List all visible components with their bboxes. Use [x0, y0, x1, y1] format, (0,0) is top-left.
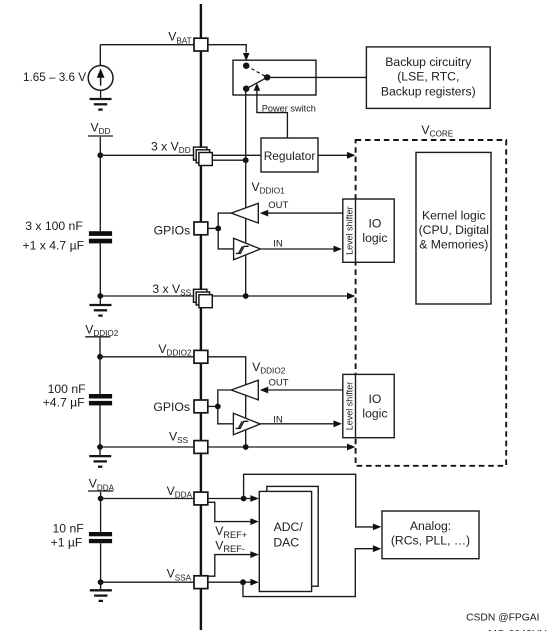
- wire GPIO1 pin to node: [208, 227, 218, 229]
- pin VSSA: [194, 576, 208, 589]
- svg-text:CSDN @FPGAI: CSDN @FPGAI: [466, 613, 539, 624]
- wire VSS line to VCORE: [210, 295, 347, 297]
- arrow VREF- into ADC: [250, 551, 258, 558]
- pin VBAT: [194, 38, 208, 51]
- arrow into switch top contact: [243, 53, 250, 61]
- wire VDD rail down to capacitor: [99, 155, 101, 231]
- wire node up to driver2: [218, 390, 231, 406]
- output driver2 triangle: [231, 380, 258, 400]
- svg-text:GPIOs: GPIOs: [154, 224, 191, 238]
- junction VDDIO2 rail: [97, 354, 103, 360]
- wire regulator output to VCORE: [318, 154, 347, 156]
- pin GPIO2: [194, 400, 208, 413]
- wire VBAT pin to switch: [208, 45, 246, 53]
- arrow VSS2 into VCORE: [347, 444, 355, 451]
- junction GPIO1 node: [215, 226, 221, 232]
- junction VDDA node: [241, 496, 247, 502]
- schmitt trigger2 hysteresis glyph: [236, 421, 249, 428]
- pin 3xVDD stacked: [194, 147, 207, 160]
- wire VDDIO2 to pin: [100, 356, 199, 358]
- wire VDD rail to 3xVDD pin: [100, 154, 199, 156]
- wire VSS2 stub to ground: [99, 447, 101, 455]
- ground source: [90, 99, 112, 110]
- wire node down to schmitt1: [218, 228, 233, 249]
- ground VSSA: [90, 590, 112, 601]
- wire IN1 to level shifter: [260, 248, 333, 250]
- svg-text:OUT: OUT: [268, 200, 288, 211]
- svg-text:OUT: OUT: [269, 377, 289, 388]
- ADC/DAC stacked box back: [267, 486, 318, 586]
- svg-text:logic: logic: [362, 231, 387, 245]
- svg-text:(LSE, RTC,: (LSE, RTC,: [397, 70, 459, 84]
- analog block box: [382, 511, 479, 559]
- ADC/DAC box front: [259, 491, 311, 591]
- junction VDD rail: [97, 152, 103, 158]
- arrow VDDA into ADC: [250, 495, 258, 502]
- arrow OUT2 into driver: [260, 387, 268, 394]
- svg-text:IO: IO: [368, 217, 381, 231]
- junction VSS2 rail left: [97, 444, 103, 450]
- arrow switch control: [254, 83, 261, 91]
- kernel logic box: [416, 152, 491, 304]
- wire VDD stub: [99, 137, 101, 155]
- svg-text:Analog:: Analog:: [410, 519, 451, 533]
- switch lever: [246, 77, 267, 88]
- arrow analog top input: [373, 524, 381, 531]
- wire GPIO2 pin to node: [208, 405, 218, 407]
- svg-text:IN: IN: [273, 238, 283, 249]
- wire VSSA to pin: [101, 581, 199, 583]
- svg-text:(CPU, Digital: (CPU, Digital: [419, 223, 489, 237]
- pin 3xVSS stacked: [194, 289, 207, 302]
- capacitor C2 100nF+4.7uF plates: [89, 394, 112, 399]
- VCORE domain dashed box: [356, 140, 507, 466]
- wire VDDA to analog block: [244, 474, 374, 527]
- svg-text:Backup circuitry: Backup circuitry: [385, 55, 472, 69]
- output driver1 triangle: [231, 203, 258, 223]
- arrow IN2: [334, 420, 342, 427]
- switch dashed throw: [246, 66, 267, 78]
- svg-text:3 x 100 nF: 3 x 100 nF: [25, 219, 83, 233]
- wire VREF- tap: [208, 555, 251, 577]
- wire VSSA to analog block: [243, 549, 374, 597]
- svg-text:Kernel logic: Kernel logic: [422, 208, 486, 222]
- wire C1 to VSS line: [99, 243, 101, 296]
- voltage source 1.65-3.6 V: [88, 66, 113, 91]
- wire source top drop: [99, 45, 101, 66]
- arrow OUT1 into driver: [260, 210, 268, 217]
- schmitt trigger1 hysteresis glyph: [236, 246, 249, 253]
- wire VBAT from source to pin: [100, 44, 195, 46]
- wire VSS stub to ground: [99, 296, 101, 304]
- node VDDA underline: [88, 490, 113, 492]
- arrow VREF+ into ADC: [250, 518, 258, 525]
- node VDD underline: [88, 135, 113, 137]
- wire IN2 to level shifter: [260, 423, 333, 425]
- arrow VSS into VCORE: [347, 293, 355, 300]
- pin GPIO1: [194, 222, 208, 235]
- switch contact VBAT: [243, 62, 249, 68]
- svg-text:ADC/: ADC/: [274, 520, 304, 534]
- wire VDDA stub: [100, 492, 102, 499]
- IO logic box2 with level shifter: [343, 374, 394, 437]
- svg-text:+4.7 µF: +4.7 µF: [43, 396, 85, 410]
- junction VDDA rail: [98, 496, 104, 502]
- wire C3 to VSSA line: [100, 543, 102, 582]
- junction VSS rail left: [97, 293, 103, 299]
- capacitor C3 10nF+1uF plates: [89, 532, 112, 536]
- wire switch output to backup circuitry: [267, 76, 366, 78]
- IO logic box1 with level shifter: [343, 199, 394, 262]
- node VDDIO2 underline: [85, 336, 110, 338]
- svg-text:GPIOs: GPIOs: [153, 400, 190, 414]
- svg-text:Regulator: Regulator: [264, 149, 316, 163]
- svg-text:10 nF: 10 nF: [53, 522, 84, 536]
- junction VSSA node: [240, 579, 246, 585]
- wire switch control from regulator: [257, 90, 288, 138]
- wire VDDA rail to capacitor: [100, 499, 102, 533]
- switch contact VDD: [243, 86, 249, 92]
- wire 3xVDD pin to regulator: [210, 154, 261, 156]
- svg-text:Level shifter: Level shifter: [344, 206, 354, 255]
- wire 3xVDD pin to switch rail: [210, 159, 246, 161]
- junction VSS rail and VDDIO1 rail: [243, 293, 249, 299]
- ground VSS2: [89, 456, 111, 467]
- svg-text:IO: IO: [368, 392, 381, 406]
- schmitt trigger1 triangle: [234, 238, 261, 259]
- junction VDD to switch rail: [243, 157, 249, 163]
- svg-text:Backup registers): Backup registers): [381, 84, 476, 98]
- svg-text:Power switch: Power switch: [262, 103, 316, 113]
- capacitor C1 3x100nF+4.7uF plates: [89, 231, 112, 236]
- wire VREF+ tap: [208, 502, 251, 521]
- wire VSSA pin to ADC: [208, 581, 251, 583]
- junction VDDIO2 rail at VSS2: [243, 444, 249, 450]
- wire VDDIO2 pin to rail2: [208, 357, 246, 447]
- wire OUT1 from level shifter: [267, 212, 343, 214]
- arrow VSSA into ADC: [250, 579, 258, 586]
- wire VSS2 to pin: [100, 446, 199, 448]
- regulator U1: [261, 138, 318, 172]
- svg-text:100 nF: 100 nF: [48, 382, 86, 396]
- wire source to ground: [100, 90, 102, 98]
- wire node up to driver1: [218, 213, 231, 228]
- wire VDDIO2 rail to capacitor: [99, 357, 101, 394]
- wire VDDA pin to ADC: [208, 498, 251, 500]
- wire OUT2 from level shifter: [267, 389, 343, 391]
- svg-text:+1 µF: +1 µF: [51, 535, 83, 549]
- pin VSS2: [194, 441, 208, 454]
- wire VSS2 line to VCORE: [208, 446, 347, 448]
- pin VDDA: [194, 492, 208, 505]
- wire C2 to VSS2 line: [99, 405, 101, 447]
- junction VSSA rail left: [98, 579, 104, 585]
- pin VDDIO2: [194, 350, 208, 363]
- svg-text:DAC: DAC: [273, 536, 299, 550]
- wire VDDIO1 rail (switch contact down through buffers to VSS): [245, 89, 247, 296]
- svg-text:(RCs, PLL, …): (RCs, PLL, …): [391, 534, 470, 548]
- ground VSS: [90, 305, 112, 316]
- schmitt trigger2 triangle: [233, 413, 260, 435]
- arrow IN1: [334, 246, 342, 253]
- svg-text:Level shifter: Level shifter: [344, 382, 354, 431]
- backup circuitry box: [366, 47, 490, 109]
- wire VDDA to pin: [101, 498, 199, 500]
- wire VSSA stub to ground: [100, 582, 102, 589]
- wire main supply bus vertical rail: [200, 4, 202, 630]
- svg-text:logic: logic: [362, 407, 387, 421]
- switch contact output: [264, 74, 270, 80]
- power switch box: [233, 60, 316, 95]
- arrow regulator output: [347, 152, 355, 159]
- svg-text:1.65 – 3.6 V: 1.65 – 3.6 V: [23, 71, 86, 84]
- arrow analog bottom input: [373, 545, 381, 552]
- svg-text:IN: IN: [273, 414, 283, 425]
- junction GPIO2 node: [215, 404, 221, 410]
- svg-text:+1 x 4.7 µF: +1 x 4.7 µF: [23, 239, 85, 253]
- wire VDDIO2 stub: [99, 338, 101, 357]
- svg-text:& Memories): & Memories): [419, 237, 488, 251]
- wire node down to schmitt2: [218, 406, 234, 423]
- wire VSS rail to 3xVSS pin: [100, 295, 199, 297]
